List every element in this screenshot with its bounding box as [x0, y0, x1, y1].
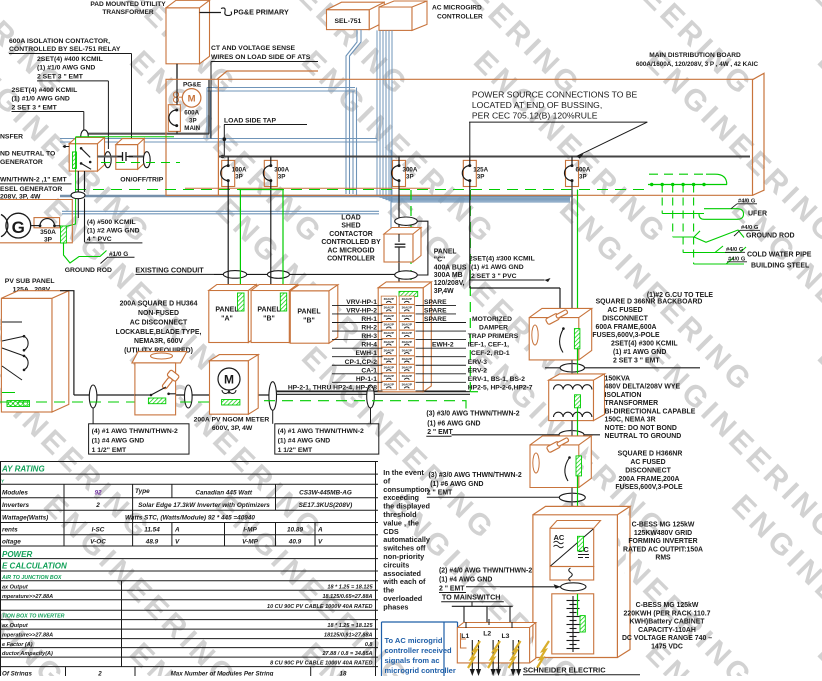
circuit breaker 100A 3P [222, 160, 235, 186]
svg-text:NEUTRAL TO GROUND: NEUTRAL TO GROUND [605, 433, 682, 440]
svg-text:(4) #1 AWG THWN/THWN-2: (4) #1 AWG THWN/THWN-2 [92, 428, 178, 435]
circuit breaker 300A 3P [264, 160, 277, 186]
svg-text:(1) #6 AWG GND: (1) #6 AWG GND [430, 481, 483, 488]
svg-text:3P: 3P [406, 174, 414, 181]
conduit ellipse on leader [81, 130, 89, 143]
transformer 150KVA isolation [549, 380, 594, 421]
panel A [209, 291, 249, 343]
svg-text:"A": "A" [221, 316, 233, 323]
svg-text:I-SC: I-SC [92, 527, 105, 534]
conduit ellipse 1 [89, 385, 97, 408]
wire to transformer [571, 360, 573, 380]
svg-text:1475 VDC: 1475 VDC [651, 644, 683, 651]
svg-text:(4) #1 AWG THWN/THWN-2: (4) #1 AWG THWN/THWN-2 [278, 428, 364, 435]
svg-text:"B": "B" [303, 318, 315, 325]
svg-text:CONTROLLER: CONTROLLER [327, 256, 375, 263]
svg-text:2 SET 3 * EMT: 2 SET 3 * EMT [12, 104, 58, 111]
conduit ellipse panel B [267, 271, 289, 279]
svg-text:600A/1600A, 120/208V, 3 P , 4W: 600A/1600A, 120/208V, 3 P , 4W , 42 KAIC [636, 61, 759, 68]
svg-text:Of Strings: Of Strings [2, 671, 32, 676]
svg-text:oltage: oltage [2, 539, 21, 546]
svg-text:600A ISOLATION CONTACTOR,: 600A ISOLATION CONTACTOR, [9, 38, 110, 45]
svg-text:(1) #2 AWG GND: (1) #2 AWG GND [87, 228, 140, 235]
svg-text:CS3W-445MB-AG: CS3W-445MB-AG [299, 489, 352, 496]
svg-text:480V DELTA/208V WYE: 480V DELTA/208V WYE [605, 384, 681, 391]
wires below terminal box [471, 640, 473, 670]
disconnect ground lug [148, 398, 165, 404]
svg-text:2SET(4) #400 KCMIL: 2SET(4) #400 KCMIL [12, 87, 78, 94]
svg-text:30A/2P: 30A/2P [402, 348, 412, 352]
svg-text:NOTE: DO NOT BOND: NOTE: DO NOT BOND [605, 425, 677, 432]
svg-text:100A: 100A [232, 166, 247, 173]
svg-text:(1)#2 G.CU TO TELE: (1)#2 G.CU TO TELE [647, 292, 714, 299]
wire PV panel to bus [60, 291, 74, 395]
circuit breaker 600A 3P [566, 160, 579, 186]
svg-text:RH-1: RH-1 [361, 316, 377, 323]
svg-text:SE17.3KUS(208V): SE17.3KUS(208V) [299, 502, 353, 509]
generator connection hatch [61, 226, 67, 243]
svg-text:PANEL: PANEL [257, 307, 281, 314]
UFER electrode [662, 209, 743, 220]
svg-text:TO MAINSWITCH: TO MAINSWITCH [442, 593, 501, 602]
disconnect SQUARE D 366NR [529, 308, 592, 360]
svg-text:(1) #6 AWG GND: (1) #6 AWG GND [427, 421, 480, 428]
svg-text:200A PV NGOM METER: 200A PV NGOM METER [194, 417, 270, 424]
ground bus green dashed [75, 189, 648, 191]
svg-text:30A/2P: 30A/2P [384, 357, 394, 361]
svg-text:SPARE: SPARE [424, 307, 447, 314]
svg-text:2 SET 3 " EMT: 2 SET 3 " EMT [37, 73, 84, 80]
svg-text:(1) #4 AWG GND: (1) #4 AWG GND [439, 577, 492, 584]
svg-text:PG&E PRIMARY: PG&E PRIMARY [234, 8, 289, 17]
svg-text:3P: 3P [278, 174, 286, 181]
note to AC microgrid blue [382, 621, 458, 623]
wire leader down [83, 112, 85, 132]
battery symbol [572, 596, 574, 652]
svg-text:11.54: 11.54 [144, 527, 160, 534]
svg-text:NEMA3R, 600V: NEMA3R, 600V [134, 338, 183, 345]
svg-text:150KVA: 150KVA [605, 375, 631, 382]
svg-text:18 * 1.25 = 18.125: 18 * 1.25 = 18.125 [327, 585, 373, 591]
circuit breaker 300A 3P [393, 160, 406, 186]
svg-text:LOAD: LOAD [341, 215, 361, 222]
svg-text:controller received: controller received [385, 646, 453, 655]
svg-text:30A/2P: 30A/2P [384, 374, 394, 378]
svg-text:Inverters: Inverters [2, 502, 29, 509]
svg-text:AY RATING: AY RATING [1, 464, 45, 473]
svg-text:M: M [224, 373, 234, 387]
svg-text:AC DISCONNECT: AC DISCONNECT [130, 319, 188, 326]
wire SEL-751 blue pair [346, 30, 357, 194]
svg-text:30A/2P: 30A/2P [384, 365, 394, 369]
panel B [251, 291, 289, 343]
svg-text:600A: 600A [184, 110, 199, 117]
svg-text:AC FUSED: AC FUSED [630, 459, 665, 466]
svg-text:30A/2P: 30A/2P [384, 306, 394, 310]
svg-text:ND NEUTRAL TO: ND NEUTRAL TO [0, 151, 55, 158]
svg-text:150C, NEMA 3R: 150C, NEMA 3R [605, 417, 656, 424]
wire to PG&E primary [200, 12, 222, 14]
svg-text:mperature>>27.88A: mperature>>27.88A [2, 633, 53, 639]
generator G [6, 213, 31, 238]
svg-text:CA-1: CA-1 [361, 367, 377, 374]
svg-text:(1) #4 AWG GND: (1) #4 AWG GND [92, 437, 145, 444]
svg-text:"C": "C" [434, 256, 446, 263]
svg-text:V: V [175, 539, 180, 546]
svg-text:FUSES,600V,3-POLE: FUSES,600V,3-POLE [592, 332, 660, 339]
wire panel feeders horizontal [214, 273, 400, 275]
svg-text:M: M [188, 94, 196, 105]
svg-text:DAMPER: DAMPER [479, 325, 508, 332]
conduit 4in PVC [71, 192, 85, 199]
wire leader to conduit [107, 81, 109, 149]
ATS automatic transfer switch [69, 144, 97, 171]
svg-text:Max Number of Modules Per Stri: Max Number of Modules Per String [171, 671, 274, 676]
svg-text:125A: 125A [473, 166, 488, 173]
svg-text:30A/2P: 30A/2P [402, 340, 412, 344]
svg-text:ductor Ampacity(A): ductor Ampacity(A) [2, 651, 53, 657]
svg-text:2: 2 [97, 671, 102, 676]
wire ellipse3 leader [272, 411, 274, 424]
green dashed bus ground [0, 401, 218, 403]
svg-text:92: 92 [94, 489, 102, 496]
wire ellipse1 leader [92, 408, 94, 424]
wire 300A to panel B [270, 187, 272, 291]
svg-text:30A/2P: 30A/2P [384, 323, 394, 327]
wire CT sense loop upper [207, 87, 355, 89]
svg-text:BUILDING STEEL: BUILDING STEEL [751, 263, 810, 270]
svg-text:4 " PVC: 4 " PVC [87, 236, 112, 243]
panel C [378, 288, 423, 392]
conduit ellipse below transformer [452, 434, 601, 436]
svg-text:FUSES,600V,3-POLE: FUSES,600V,3-POLE [615, 484, 683, 491]
grounding electrode conductors [661, 185, 663, 214]
green ground drop right [577, 190, 579, 329]
svg-text:18: 18 [340, 671, 347, 676]
svg-text:18125/0.91>27.88A: 18125/0.91>27.88A [324, 633, 373, 639]
svg-text:HP-2-1, THRU HP2-4, HP-2-8: HP-2-1, THRU HP2-4, HP-2-8 [288, 384, 377, 391]
svg-text:LOCKABLE,BLADE TYPE,: LOCKABLE,BLADE TYPE, [116, 329, 202, 336]
svg-text:300A: 300A [403, 166, 418, 173]
wire 125A drop [469, 187, 471, 289]
svg-text:L3: L3 [502, 633, 510, 640]
svg-text:NSFER: NSFER [0, 134, 23, 141]
svg-text:8 CU 90C PV CABLE 1000V 40A RA: 8 CU 90C PV CABLE 1000V 40A RATED [270, 661, 372, 667]
conduit ellipse below H366NR [559, 493, 585, 502]
relay SEL-751 [327, 10, 370, 30]
svg-text:AIR TO JUNCTION BOX: AIR TO JUNCTION BOX [1, 575, 62, 581]
battery cabinet outer [533, 506, 630, 657]
svg-text:3P: 3P [189, 117, 197, 124]
svg-text:Watts STC, (Watts/Module) 92: Watts STC, (Watts/Module) 92 * 445 =4094… [125, 514, 255, 521]
svg-text:18.125/0.65=27.88A: 18.125/0.65=27.88A [322, 594, 372, 600]
svg-text:FORMING INVERTER: FORMING INVERTER [628, 538, 697, 545]
svg-text:Canadian 445 Watt: Canadian 445 Watt [195, 489, 253, 496]
svg-text:PANEL: PANEL [434, 249, 457, 256]
svg-text:2 SET 3 " EMT: 2 SET 3 " EMT [613, 357, 660, 364]
svg-text:DISCONNECT: DISCONNECT [625, 467, 671, 474]
conduit ellipse contactor bottom [395, 271, 418, 279]
svg-text:C-BESS MG 125kW: C-BESS MG 125kW [636, 602, 699, 609]
svg-text:KWH)Battery CABINET: KWH)Battery CABINET [629, 619, 705, 626]
svg-text:CONTROLLER: CONTROLLER [437, 14, 483, 21]
svg-text:SHED: SHED [341, 223, 360, 230]
svg-text:RH-2: RH-2 [361, 325, 377, 332]
svg-text:ERV-1, BS-1, BS-2: ERV-1, BS-1, BS-2 [468, 376, 525, 383]
svg-text:PANEL: PANEL [215, 307, 239, 314]
svg-text:3P: 3P [579, 174, 587, 181]
ground rod wire green [64, 243, 107, 263]
load shed contactor box [384, 234, 413, 262]
yellow surge arrows [468, 641, 480, 668]
svg-text:LOAD SIDE TAP: LOAD SIDE TAP [224, 118, 276, 125]
svg-text:C-BESS MG 125kW: C-BESS MG 125kW [632, 522, 695, 529]
green staple feeders [239, 189, 283, 191]
svg-text:30A/2P: 30A/2P [402, 331, 412, 335]
svg-text:27.88 / 0.8 = 34.85A: 27.88 / 0.8 = 34.85A [322, 651, 373, 657]
svg-text:To AC microgrid: To AC microgrid [385, 636, 443, 645]
svg-text:ax Output: ax Output [2, 623, 29, 629]
svg-text:DISCONNECT: DISCONNECT [602, 315, 648, 322]
svg-text:V: V [318, 539, 323, 546]
svg-text:3P: 3P [44, 236, 53, 243]
svg-text:600A: 600A [576, 166, 591, 173]
wire blue pair lower [62, 210, 379, 212]
svg-text:phases: phases [383, 602, 408, 611]
svg-text:(1) #1/0 AWG GND: (1) #1/0 AWG GND [37, 65, 95, 72]
svg-text:600V, 3P, 4W: 600V, 3P, 4W [212, 425, 253, 432]
wire stub generator [63, 146, 69, 148]
panel C branch breakers [381, 296, 396, 304]
svg-text:RATED AC OUTPIT:150A: RATED AC OUTPIT:150A [623, 546, 703, 553]
svg-text:GENERATOR: GENERATOR [0, 159, 43, 166]
svg-text:300A MB: 300A MB [434, 272, 463, 279]
svg-text:EXISTING CONDUIT: EXISTING CONDUIT [135, 266, 204, 275]
wire 100A to panel A [227, 187, 229, 291]
svg-text:signals from ac: signals from ac [385, 656, 440, 665]
svg-text:350A: 350A [40, 229, 56, 236]
svg-text:200A FRAME,200A: 200A FRAME,200A [618, 476, 679, 483]
inverter AC/DC [550, 521, 601, 529]
svg-text:POWER SOURCE CONNECTIONS TO BE: POWER SOURCE CONNECTIONS TO BE [472, 90, 638, 100]
svg-text:VRV-HP-2: VRV-HP-2 [346, 307, 377, 314]
CT coils [173, 92, 178, 97]
svg-text:CT AND VOLTAGE SENSE: CT AND VOLTAGE SENSE [211, 45, 296, 52]
wire 600A drop to disconnect [571, 187, 573, 318]
svg-text:ERV-3: ERV-3 [468, 359, 487, 366]
PV sub panel breakers [2, 321, 22, 323]
svg-text:MOTORIZED: MOTORIZED [472, 316, 512, 323]
svg-text:2SET(4) #300 KCMIL: 2SET(4) #300 KCMIL [611, 341, 678, 348]
svg-text:E CALCULATION: E CALCULATION [2, 562, 67, 571]
svg-text:SQUARE D H366NR: SQUARE D H366NR [618, 451, 683, 458]
svg-text:(3) #3/0 AWG THWN/THWN-2: (3) #3/0 AWG THWN/THWN-2 [426, 411, 519, 418]
svg-text:COLD WATER PIPE: COLD WATER PIPE [747, 252, 812, 259]
svg-text:RH-4: RH-4 [361, 342, 377, 349]
breaker 600A 3P MAIN [168, 105, 180, 132]
svg-text:0.8: 0.8 [365, 642, 374, 648]
svg-text:30A/2P: 30A/2P [402, 297, 412, 301]
ground bus solid [648, 184, 727, 186]
green ground loop ATS [76, 136, 174, 138]
conduit ellipse contactor top [395, 217, 418, 225]
svg-text:CEF-2, RD-1: CEF-2, RD-1 [471, 350, 510, 357]
svg-text:#1/0 G: #1/0 G [109, 251, 128, 258]
svg-text:SPARE: SPARE [424, 299, 447, 306]
svg-text:SQUARE D 366NR BACKBOARD: SQUARE D 366NR BACKBOARD [596, 299, 703, 306]
svg-text:UFER: UFER [748, 211, 767, 218]
svg-text:ERV-2: ERV-2 [468, 367, 487, 374]
svg-text:10 CU 90C PV CABLE 1000V 40A R: 10 CU 90C PV CABLE 1000V 40A RATED [267, 604, 372, 610]
svg-text:Wattage(Watts): Wattage(Watts) [2, 514, 48, 521]
divider PG&E section [217, 79, 219, 195]
meter 200A PV NGOM [210, 361, 249, 415]
svg-text:3P,4W: 3P,4W [434, 288, 454, 295]
svg-text:SPARE: SPARE [424, 316, 447, 323]
svg-text:CONTROLLED BY: CONTROLLED BY [321, 239, 381, 246]
svg-text:300A: 300A [274, 166, 289, 173]
svg-text:30A/2P: 30A/2P [402, 314, 412, 318]
wire leader CT [210, 62, 212, 139]
conduit ellipse right of contactor [143, 152, 150, 168]
inverter breaker section [550, 567, 594, 581]
breaker 350A 3P [34, 218, 60, 228]
svg-text:PAD MOUNTED UTILITY: PAD MOUNTED UTILITY [90, 1, 166, 8]
svg-text:30A/2P: 30A/2P [402, 357, 412, 361]
svg-text:40.9: 40.9 [288, 539, 302, 546]
contactor ON/OFF/TRIP [116, 145, 138, 170]
svg-text:ON/OFF/TRIP: ON/OFF/TRIP [120, 176, 164, 183]
svg-text:(2) #4/0 AWG THWN/THWN-2: (2) #4/0 AWG THWN/THWN-2 [439, 568, 532, 575]
svg-text:TRANSFORMER: TRANSFORMER [605, 400, 659, 407]
svg-text:CAPACITY-110AH: CAPACITY-110AH [638, 627, 696, 634]
svg-text:30A/2P: 30A/2P [402, 365, 412, 369]
wire orange feeder under MDB [185, 187, 430, 189]
svg-text:(4) #500 KCMIL: (4) #500 KCMIL [87, 219, 136, 226]
svg-text:125KW480V GRID: 125KW480V GRID [634, 530, 692, 537]
svg-text:Type: Type [135, 488, 150, 495]
AC microgrid controller [379, 7, 412, 30]
svg-text:MAIN: MAIN [184, 125, 200, 132]
conduit ellipse panel A [223, 271, 246, 279]
svg-text:GROUND ROD: GROUND ROD [746, 233, 795, 240]
svg-text:Modules: Modules [2, 489, 28, 496]
svg-text:ax Output: ax Output [2, 585, 29, 591]
disconnect switch blade [135, 394, 151, 396]
svg-text:"B": "B" [263, 316, 275, 323]
svg-text:2 " EMT: 2 " EMT [427, 490, 453, 497]
battery rack [552, 594, 594, 654]
svg-text:2 SET 3 " PVC: 2 SET 3 " PVC [471, 273, 517, 280]
svg-text:400A BUS: 400A BUS [434, 264, 467, 271]
wire blue to load shed contactor [390, 150, 392, 236]
svg-text:A: A [317, 527, 323, 534]
wire CT sense pair to ATS [60, 138, 377, 140]
svg-text:GROUND ROD: GROUND ROD [65, 267, 112, 274]
disconnect handle [159, 370, 179, 392]
svg-text:RH-3: RH-3 [361, 333, 377, 340]
svg-text:e Factor (A): e Factor (A) [2, 642, 33, 648]
svg-text:G: G [12, 218, 25, 237]
wire AC controller blue bundle [377, 30, 570, 196]
wire to inverter cabinet [571, 488, 573, 529]
svg-text:LOCATED AT END OF BUSSING,: LOCATED AT END OF BUSSING, [472, 100, 602, 110]
wire transformer to MDB [176, 64, 178, 80]
svg-text:SCHNEIDER ELECTRIC: SCHNEIDER ELECTRIC [523, 666, 606, 675]
svg-text:30A/2P: 30A/2P [384, 348, 394, 352]
svg-text:AC MICROGIRD: AC MICROGIRD [432, 5, 482, 12]
svg-text:2 " EMT: 2 " EMT [439, 586, 465, 593]
note conduit group 2 [275, 424, 379, 454]
svg-text:30A/2P: 30A/2P [402, 323, 412, 327]
svg-text:AC FUSED: AC FUSED [607, 307, 642, 314]
cold water pipe electrode [683, 246, 746, 253]
svg-text:(1) #1 AWG GND: (1) #1 AWG GND [613, 349, 666, 356]
svg-text:IEF-1, CEF-1,: IEF-1, CEF-1, [468, 342, 509, 349]
ATS switch blades [80, 147, 83, 150]
svg-text:3P: 3P [235, 174, 243, 181]
svg-text:WIRES ON LOAD SIDE OF ATS: WIRES ON LOAD SIDE OF ATS [211, 54, 311, 61]
svg-text:HP2-5, HP-2-6,HP2-7: HP2-5, HP-2-6,HP2-7 [468, 384, 533, 391]
svg-text:2SET(4) #300 KCMIL: 2SET(4) #300 KCMIL [469, 256, 535, 263]
svg-text:PG&E: PG&E [183, 82, 202, 89]
svg-text:ESEL GENERATOR: ESEL GENERATOR [0, 186, 62, 193]
svg-text:30A/2P: 30A/2P [384, 314, 394, 318]
svg-text:V-OC: V-OC [90, 539, 106, 546]
AC disconnect box [132, 352, 187, 363]
svg-text:CP-1,CP-2: CP-1,CP-2 [345, 359, 378, 366]
svg-text:600A FRAME,600A: 600A FRAME,600A [595, 324, 656, 331]
svg-text:AC: AC [554, 533, 565, 542]
svg-text:BI-DIRECTIONAL CAPABLE: BI-DIRECTIONAL CAPABLE [605, 408, 696, 415]
svg-text:2: 2 [95, 502, 100, 509]
svg-text:2 " EMT: 2 " EMT [427, 429, 453, 436]
svg-text:AC MICROGID: AC MICROGID [327, 247, 374, 254]
svg-text:MAIN DISTRIBUTION BOARD: MAIN DISTRIBUTION BOARD [649, 52, 741, 59]
svg-text:TRAP PRIMERS: TRAP PRIMERS [468, 333, 519, 340]
svg-text:ISOLATION: ISOLATION [605, 392, 642, 399]
conduit ellipse 4 [367, 385, 375, 408]
svg-text:EWH-2: EWH-2 [432, 342, 454, 349]
svg-text:120/208V,: 120/208V, [434, 280, 465, 287]
svg-text:PV SUB PANEL: PV SUB PANEL [5, 278, 55, 285]
svg-text:VRV-HP-1: VRV-HP-1 [346, 299, 377, 306]
PV array rating table [0, 461, 378, 463]
svg-text:L1: L1 [461, 633, 469, 640]
wire service down [176, 80, 178, 105]
svg-text:I-MP: I-MP [243, 527, 257, 534]
svg-text:PER CEC 705.12(B) 120%RULE: PER CEC 705.12(B) 120%RULE [472, 111, 598, 121]
conduit ellipse between ATS and contactor [104, 152, 111, 168]
svg-text:30A/2P: 30A/2P [384, 383, 394, 387]
bus MDB [219, 156, 750, 158]
svg-text:SEL-751: SEL-751 [334, 18, 361, 25]
wire 300A drop to panel C [398, 187, 400, 291]
wire generator down [77, 199, 79, 218]
svg-text:200A SQUARE D HU364: 200A SQUARE D HU364 [120, 301, 198, 308]
svg-text:V-MP: V-MP [242, 539, 258, 546]
svg-text:EWH-1: EWH-1 [355, 350, 377, 357]
wire to disconnect 2 [571, 421, 573, 445]
wires to L1 L2 L3 [463, 606, 465, 631]
svg-text:WN/THWN-2 ,1" EMT: WN/THWN-2 ,1" EMT [0, 177, 68, 184]
svg-text:L2: L2 [483, 631, 491, 638]
wire ATS to generator [77, 171, 79, 192]
generator enclosure [0, 200, 72, 243]
svg-text:30A/2P: 30A/2P [402, 383, 412, 387]
svg-text:CONTACTOR: CONTACTOR [329, 231, 372, 238]
svg-text:48.9: 48.9 [145, 539, 159, 546]
